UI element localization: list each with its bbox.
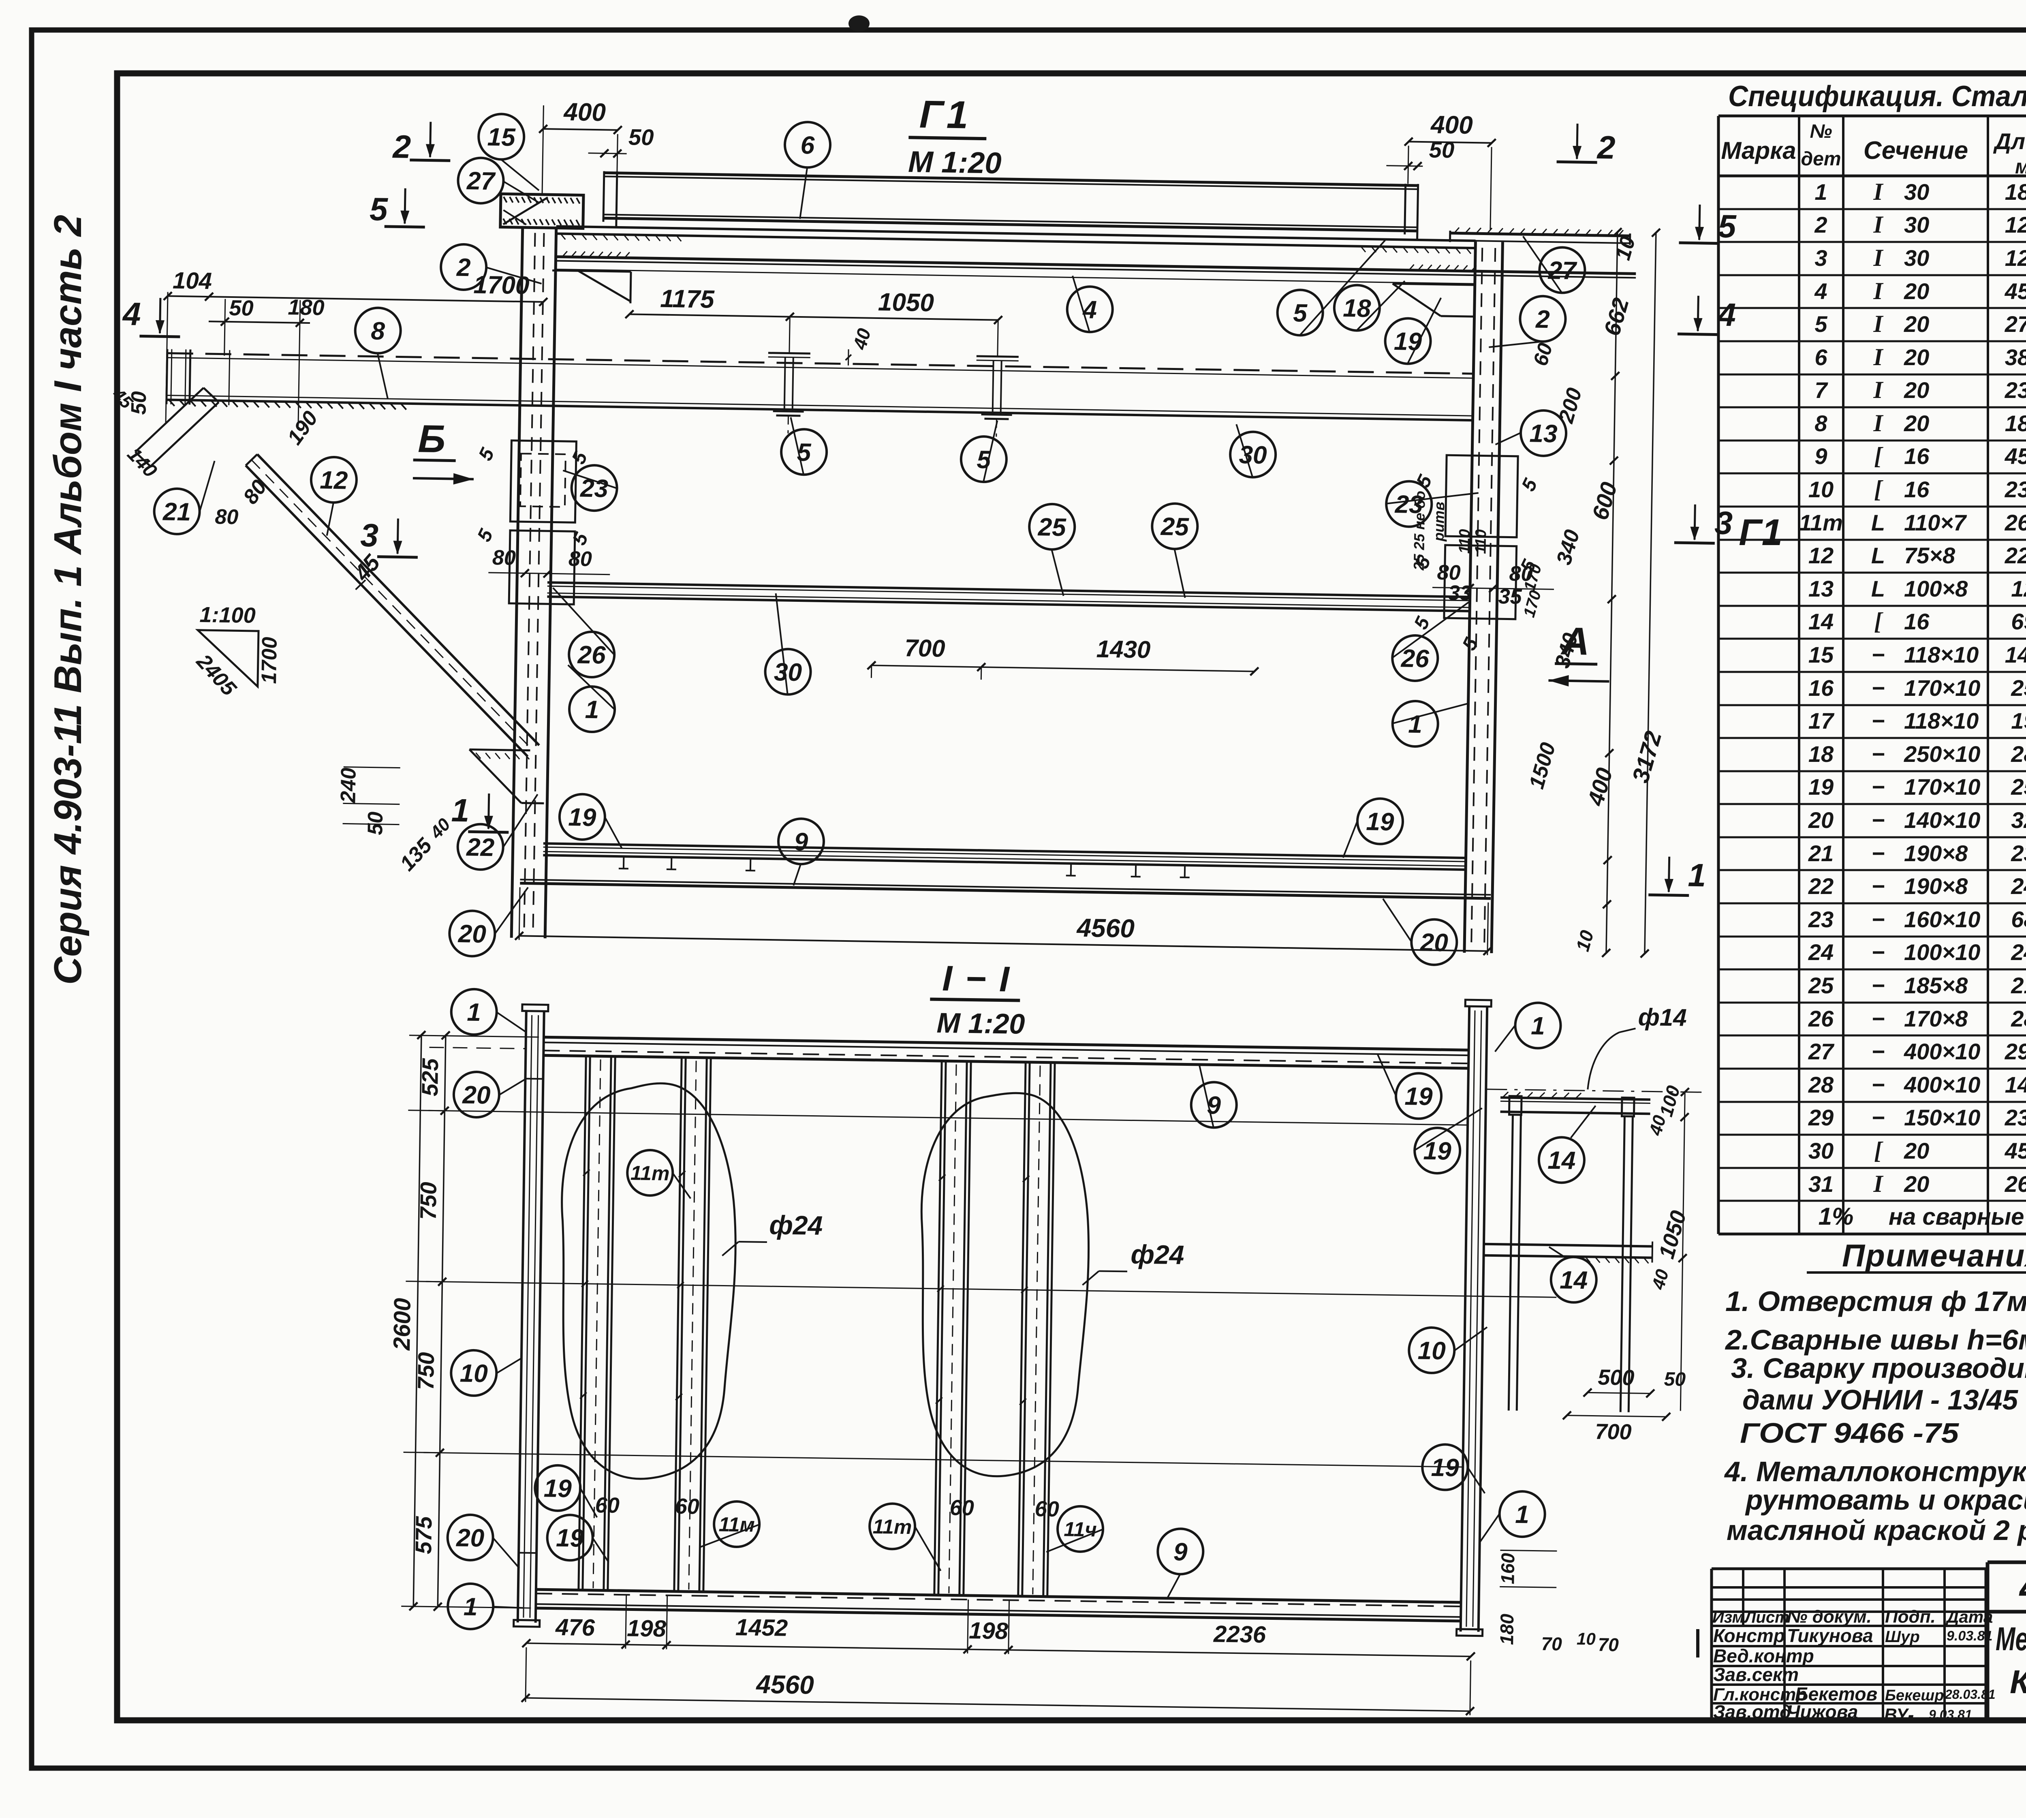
dim 240 50 135 brace bottom xyxy=(336,767,455,876)
series label (vertical) xyxy=(46,215,90,985)
stiffener pair 11t b xyxy=(933,1060,971,1595)
svg-text:−: − xyxy=(1872,939,1885,965)
svg-text:Марка: Марка xyxy=(1721,137,1796,164)
svg-text:М 1:20: М 1:20 xyxy=(908,145,1002,180)
svg-text:18: 18 xyxy=(1808,741,1834,767)
bracket under beam4 right xyxy=(1392,284,1475,317)
svg-text:30: 30 xyxy=(1904,179,1929,205)
svg-text:23: 23 xyxy=(1808,907,1834,932)
svg-text:4: 4 xyxy=(1082,296,1097,324)
svg-text:2300: 2300 xyxy=(2005,377,2026,403)
svg-text:4560: 4560 xyxy=(755,1670,814,1700)
svg-text:19: 19 xyxy=(568,803,597,832)
svg-text:ф24: ф24 xyxy=(1131,1239,1184,1270)
dim 50 right xyxy=(1386,136,1454,171)
svg-text:19: 19 xyxy=(1404,1082,1433,1111)
svg-text:на сварные швы: на сварные швы xyxy=(1889,1204,2026,1230)
svg-text:60: 60 xyxy=(949,1495,974,1520)
dim 50 180 xyxy=(207,294,325,426)
view marker B xyxy=(413,417,475,485)
svg-text:1: 1 xyxy=(451,792,470,829)
beam 4 second chord xyxy=(556,251,1636,287)
left dim chain 525 750 750 575 xyxy=(385,1031,539,1612)
svg-text:А: А xyxy=(1560,620,1590,663)
svg-text:Зав.сект: Зав.сект xyxy=(1713,1664,1799,1685)
svg-text:27: 27 xyxy=(1547,257,1577,285)
svg-text:ф24: ф24 xyxy=(769,1210,823,1240)
svg-text:50: 50 xyxy=(1664,1369,1686,1390)
svg-text:20: 20 xyxy=(1419,928,1448,957)
dim 40 mid xyxy=(845,326,875,366)
svg-text:118×10: 118×10 xyxy=(1904,708,1979,734)
svg-text:20: 20 xyxy=(457,920,486,948)
svg-text:19: 19 xyxy=(556,1524,584,1553)
svg-text:230: 230 xyxy=(2011,840,2026,866)
svg-text:1430: 1430 xyxy=(1096,635,1151,663)
top beam 9 xyxy=(543,1037,1468,1068)
svg-text:190×8: 190×8 xyxy=(1904,873,1968,899)
svg-text:5: 5 xyxy=(1814,311,1827,337)
svg-text:680: 680 xyxy=(2011,907,2026,932)
svg-text:11т: 11т xyxy=(873,1515,912,1538)
svg-text:80: 80 xyxy=(492,546,516,570)
svg-text:11т: 11т xyxy=(630,1161,670,1185)
right outrigger dims xyxy=(1562,1082,1693,1445)
section title 1-1 xyxy=(930,958,1026,1040)
svg-text:4552: 4552 xyxy=(2005,443,2026,469)
svg-text:320: 320 xyxy=(2011,807,2026,833)
svg-text:29: 29 xyxy=(1808,1105,1834,1130)
stiffener pair 11m xyxy=(673,1056,711,1592)
svg-text:4: 4 xyxy=(1717,297,1736,333)
label f24 right xyxy=(1082,1238,1184,1286)
svg-text:4560: 4560 xyxy=(1076,913,1135,943)
svg-text:1: 1 xyxy=(1531,1012,1545,1040)
svg-text:Дата: Дата xyxy=(1945,1607,1993,1626)
svg-text:50: 50 xyxy=(229,296,254,321)
svg-text:20: 20 xyxy=(1904,311,1929,337)
dim 700 1430 xyxy=(867,632,1259,684)
svg-text:2: 2 xyxy=(1814,212,1827,237)
gusset at brace bottom xyxy=(468,749,545,803)
svg-text:1175: 1175 xyxy=(660,285,715,314)
svg-text:масляной краской 2 раза: масляной краской 2 раза xyxy=(1727,1514,2026,1546)
dims 60 stiffeners xyxy=(595,1491,1059,1524)
svg-text:700: 700 xyxy=(904,634,945,662)
stiffener box left column 23 xyxy=(509,441,576,604)
svg-text:Тикунова: Тикунова xyxy=(1787,1625,1873,1646)
svg-text:30: 30 xyxy=(774,658,802,687)
svg-text:6: 6 xyxy=(800,131,815,160)
section marker 1 left xyxy=(451,792,509,832)
svg-text:Шур: Шур xyxy=(1885,1628,1920,1646)
svg-text:26: 26 xyxy=(1808,1006,1834,1031)
section marker 3 right xyxy=(1674,504,1733,543)
section marker 2 right xyxy=(1556,123,1616,165)
diagonal brace 12 xyxy=(241,454,543,757)
svg-text:9: 9 xyxy=(1173,1538,1188,1566)
cap plate 27 right xyxy=(1450,227,1630,245)
svg-text:1257: 1257 xyxy=(2005,245,2026,271)
svg-text:−: − xyxy=(1872,1039,1885,1064)
svg-text:4: 4 xyxy=(122,296,141,332)
blob outline right xyxy=(918,1092,1091,1478)
note 4 xyxy=(1724,1456,2026,1546)
svg-text:Изм: Изм xyxy=(1712,1608,1744,1626)
svg-text:750: 750 xyxy=(415,1182,441,1220)
svg-text:31: 31 xyxy=(1808,1171,1834,1197)
title block name xyxy=(1996,1612,2026,1721)
svg-text:Лист: Лист xyxy=(1744,1608,1789,1626)
svg-text:20: 20 xyxy=(1808,807,1834,833)
svg-text:25: 25 xyxy=(1160,513,1190,541)
dim 4560 top view xyxy=(515,887,1492,955)
dim 80 80 right mid xyxy=(1432,561,1554,594)
svg-text:Вед.контр: Вед.контр xyxy=(1713,1645,1814,1666)
svg-text:Длина: Длина xyxy=(1993,128,2026,154)
small 5 weld labels right column xyxy=(1409,471,1542,655)
svg-text:−: − xyxy=(1872,642,1885,667)
section marker 4 right xyxy=(1678,295,1736,335)
svg-text:I: I xyxy=(1873,244,1884,271)
notes heading xyxy=(1807,1238,2026,1273)
right chord member xyxy=(1456,1000,1491,1636)
svg-text:1%: 1% xyxy=(1819,1203,1854,1230)
svg-text:Г1: Г1 xyxy=(919,93,972,137)
svg-text:Констр: Констр xyxy=(1713,1625,1785,1646)
svg-text:I: I xyxy=(1873,211,1884,238)
svg-text:50: 50 xyxy=(363,811,387,835)
svg-text:I: I xyxy=(1873,278,1884,304)
slope triangle 1:100 xyxy=(191,603,282,702)
note 1 xyxy=(1725,1285,2026,1317)
callout circles section view xyxy=(442,988,1600,1645)
svg-text:19: 19 xyxy=(543,1474,572,1503)
svg-text:28.03.81: 28.03.81 xyxy=(1945,1687,1996,1702)
stub plate 21 diagonal xyxy=(135,387,219,467)
svg-text:6: 6 xyxy=(1814,344,1827,370)
svg-text:215: 215 xyxy=(2011,973,2026,998)
svg-text:33: 33 xyxy=(1448,581,1472,605)
svg-text:2600: 2600 xyxy=(2005,510,2026,535)
svg-text:26: 26 xyxy=(577,641,606,669)
svg-text:16: 16 xyxy=(1808,675,1834,701)
I-section symbol 5 mid-left xyxy=(767,353,1019,437)
svg-text:ГОСТ 9466 -75: ГОСТ 9466 -75 xyxy=(1740,1417,1959,1449)
svg-text:ВУ-: ВУ- xyxy=(1884,1705,1914,1725)
view marker A xyxy=(1548,619,1610,687)
svg-text:мм: мм xyxy=(2015,155,2026,178)
bottom beam 9 xyxy=(536,1589,1461,1621)
svg-text:198: 198 xyxy=(969,1617,1009,1644)
beam 6 top xyxy=(603,171,1418,240)
svg-text:8: 8 xyxy=(1814,411,1827,436)
svg-text:Г1: Г1 xyxy=(1739,512,1782,553)
svg-text:150×10: 150×10 xyxy=(1904,1105,1980,1130)
bottom dim chain 476 198 1452 198 2236 xyxy=(522,1593,1476,1661)
svg-text:170×10: 170×10 xyxy=(1904,774,1980,800)
svg-text:23: 23 xyxy=(1394,490,1423,519)
section marker 5 left xyxy=(369,188,425,228)
svg-text:60: 60 xyxy=(595,1493,620,1518)
svg-text:185×8: 185×8 xyxy=(1904,973,1968,998)
intermediate grid lines xyxy=(424,1047,1560,1468)
svg-text:500: 500 xyxy=(1598,1365,1635,1390)
svg-text:30: 30 xyxy=(1808,1138,1834,1163)
svg-text:60: 60 xyxy=(1034,1497,1059,1521)
svg-text:8: 8 xyxy=(371,317,385,345)
svg-text:20: 20 xyxy=(1904,1138,1929,1163)
svg-text:25: 25 xyxy=(1808,973,1834,998)
column P2 left xyxy=(511,227,556,938)
svg-text:2210: 2210 xyxy=(2005,543,2026,568)
svg-text:110×7: 110×7 xyxy=(1904,510,1967,535)
svg-text:118×10: 118×10 xyxy=(1904,642,1979,667)
svg-text:2600: 2600 xyxy=(389,1298,416,1351)
svg-text:25: 25 xyxy=(1037,513,1067,541)
svg-text:13: 13 xyxy=(1529,419,1558,448)
svg-text:1: 1 xyxy=(467,999,481,1027)
note 2 xyxy=(1725,1324,2026,1356)
svg-text:15: 15 xyxy=(1808,642,1834,667)
svg-text:50: 50 xyxy=(1429,137,1454,163)
svg-text:75×8: 75×8 xyxy=(1904,543,1955,568)
bearing hatch left end beam 8 xyxy=(169,400,406,410)
svg-text:1: 1 xyxy=(1408,710,1423,739)
svg-text:L: L xyxy=(1871,576,1885,601)
svg-text:198: 198 xyxy=(627,1615,667,1642)
dim 190 80 diag area xyxy=(106,384,323,530)
svg-text:476: 476 xyxy=(555,1614,595,1641)
dim 400 right xyxy=(1403,110,1496,229)
section marker 5 right xyxy=(1679,204,1737,244)
svg-text:3: 3 xyxy=(1814,245,1827,271)
svg-text:2700: 2700 xyxy=(2005,311,2026,337)
middle beam 30 row xyxy=(547,582,1469,611)
note 3 xyxy=(1731,1352,2026,1449)
svg-text:17: 17 xyxy=(1808,708,1835,734)
svg-text:−: − xyxy=(1872,741,1885,767)
svg-text:2300: 2300 xyxy=(2005,1105,2026,1130)
section marker 4 left xyxy=(122,296,181,337)
dim 400 left xyxy=(538,98,622,196)
svg-text:12: 12 xyxy=(320,466,348,494)
bottom chord line xyxy=(520,879,1491,898)
svg-text:9.03.81: 9.03.81 xyxy=(1929,1707,1972,1722)
svg-text:5: 5 xyxy=(1293,299,1308,327)
svg-text:693: 693 xyxy=(2011,609,2026,634)
svg-text:30: 30 xyxy=(1904,245,1929,271)
svg-text:20: 20 xyxy=(1904,377,1929,403)
dim 45 on brace xyxy=(348,549,385,590)
svg-text:Серия 4.903-11 Вып. 1 Альбом I: Серия 4.903-11 Вып. 1 Альбом I часть 2 xyxy=(46,215,90,985)
svg-text:2650: 2650 xyxy=(2005,1171,2026,1197)
svg-text:2: 2 xyxy=(1596,129,1616,166)
svg-text:−: − xyxy=(1872,1006,1885,1031)
svg-text:−: − xyxy=(1872,1105,1885,1130)
svg-text:3850: 3850 xyxy=(2005,344,2026,370)
svg-text:700: 700 xyxy=(1595,1420,1632,1444)
svg-text:100×10: 100×10 xyxy=(1904,939,1980,965)
svg-text:20: 20 xyxy=(1904,278,1929,304)
svg-text:30: 30 xyxy=(1904,212,1929,237)
svg-text:240: 240 xyxy=(2011,939,2026,965)
right outrigger frame xyxy=(1481,1089,1705,1413)
svg-text:2: 2 xyxy=(392,128,411,165)
svg-text:1: 1 xyxy=(585,696,599,724)
svg-text:Бекешр: Бекешр xyxy=(1885,1687,1944,1704)
svg-text:14: 14 xyxy=(1547,1146,1576,1175)
svg-text:240: 240 xyxy=(2011,873,2026,899)
svg-text:Металлоконструкция: Металлоконструкция xyxy=(1996,1621,2026,1657)
svg-text:160×10: 160×10 xyxy=(1904,907,1980,932)
svg-text:10: 10 xyxy=(1417,1337,1446,1365)
svg-text:12: 12 xyxy=(1808,543,1834,568)
svg-text:I: I xyxy=(1873,376,1884,403)
svg-text:Б: Б xyxy=(418,417,446,461)
svg-text:10: 10 xyxy=(459,1359,488,1388)
svg-text:60: 60 xyxy=(675,1494,699,1519)
svg-text:20: 20 xyxy=(1904,411,1929,436)
svg-text:250: 250 xyxy=(2011,675,2026,701)
svg-text:170×8: 170×8 xyxy=(1904,1006,1968,1031)
svg-text:120: 120 xyxy=(2011,576,2026,601)
svg-text:1: 1 xyxy=(1515,1501,1529,1529)
svg-text:20: 20 xyxy=(456,1524,485,1552)
svg-text:I: I xyxy=(1873,410,1884,436)
svg-text:11ч: 11ч xyxy=(1064,1518,1097,1541)
svg-text:180: 180 xyxy=(288,295,325,320)
svg-text:−: − xyxy=(1872,675,1885,701)
svg-text:ритв: ритв xyxy=(1430,502,1448,542)
svg-text:16: 16 xyxy=(1904,477,1930,502)
svg-text:28: 28 xyxy=(1808,1072,1834,1097)
svg-text:20: 20 xyxy=(1904,344,1929,370)
svg-text:170×10: 170×10 xyxy=(1904,675,1980,701)
svg-text:400×10: 400×10 xyxy=(1904,1039,1980,1064)
svg-text:−: − xyxy=(1872,840,1885,866)
stiffener pair 11ch xyxy=(1017,1061,1055,1597)
svg-text:195: 195 xyxy=(2011,708,2026,734)
svg-text:100×8: 100×8 xyxy=(1904,576,1968,601)
svg-text:1700: 1700 xyxy=(473,271,530,299)
svg-text:I: I xyxy=(1873,344,1884,370)
svg-text:Сечение: Сечение xyxy=(1864,137,1968,165)
svg-text:16: 16 xyxy=(1904,443,1930,469)
svg-text:1050: 1050 xyxy=(878,288,934,317)
svg-text:−: − xyxy=(1872,907,1885,932)
svg-text:104: 104 xyxy=(173,267,212,295)
svg-text:20: 20 xyxy=(1904,1171,1929,1197)
svg-text:24: 24 xyxy=(1808,939,1834,965)
overall dim 4560 bottom xyxy=(521,1647,1475,1715)
svg-text:9: 9 xyxy=(794,828,808,856)
svg-text:22: 22 xyxy=(466,833,495,862)
stiffener pair 11t a xyxy=(577,1055,615,1591)
svg-text:№: № xyxy=(1810,121,1832,142)
svg-text:250×10: 250×10 xyxy=(1904,741,1980,767)
left chord member xyxy=(514,1005,548,1627)
svg-text:3: 3 xyxy=(1714,505,1733,541)
svg-text:I: I xyxy=(1873,1170,1884,1197)
svg-text:−: − xyxy=(1872,774,1885,800)
svg-text:400: 400 xyxy=(563,98,606,127)
specification table xyxy=(1718,80,2026,1234)
stiffener box right column 23 xyxy=(1444,455,1518,619)
svg-text:10: 10 xyxy=(1577,1629,1596,1649)
column right xyxy=(1464,242,1503,953)
svg-text:2: 2 xyxy=(1535,306,1550,334)
svg-text:Спецификация. Сталь марки Вст.: Спецификация. Сталь марки Вст.3кп.2 ГОСТ… xyxy=(1728,80,2026,113)
dim 50 left xyxy=(588,124,654,158)
dim 104 xyxy=(162,267,214,424)
section marker 3 left xyxy=(360,517,419,557)
beam 8 chord pair xyxy=(167,349,1473,425)
label f24 left xyxy=(722,1209,823,1257)
svg-text:−: − xyxy=(1872,807,1885,833)
svg-text:19: 19 xyxy=(1366,808,1395,836)
svg-text:14: 14 xyxy=(1560,1266,1588,1294)
svg-text:50: 50 xyxy=(628,124,654,150)
svg-text:L: L xyxy=(1871,510,1885,535)
svg-text:750: 750 xyxy=(413,1352,439,1390)
svg-text:7: 7 xyxy=(1814,377,1828,403)
bottom right base dims xyxy=(1496,1550,1620,1655)
svg-text:Подп.: Подп. xyxy=(1885,1607,1936,1627)
svg-text:19: 19 xyxy=(1431,1454,1459,1482)
cap plate 15/27 left xyxy=(500,194,583,228)
section marker 1 right xyxy=(1648,856,1706,896)
svg-text:13: 13 xyxy=(1808,576,1834,601)
svg-text:дами УОНИИ - 13/45 - 4.0-1: дами УОНИИ - 13/45 - 4.0-1 xyxy=(1742,1384,2026,1416)
svg-text:11т: 11т xyxy=(1799,510,1843,535)
svg-text:−: − xyxy=(1872,1072,1885,1097)
svg-text:1: 1 xyxy=(1688,857,1706,894)
svg-text:9: 9 xyxy=(1814,443,1827,469)
section marker 2 left xyxy=(392,121,451,165)
svg-text:1257: 1257 xyxy=(2005,212,2026,237)
svg-text:70: 70 xyxy=(1541,1633,1562,1655)
svg-text:16: 16 xyxy=(1904,609,1930,634)
svg-text:5: 5 xyxy=(977,446,992,474)
svg-text:2.Сварные швы h=6мм: 2.Сварные швы h=6мм xyxy=(1725,1324,2026,1356)
svg-text:22: 22 xyxy=(1808,873,1834,899)
svg-text:1. Отверстия ф 17мм: 1. Отверстия ф 17мм xyxy=(1725,1285,2026,1317)
svg-text:140×10: 140×10 xyxy=(1904,807,1980,833)
f14 label xyxy=(1588,1003,1687,1091)
dim 80 80 left mid xyxy=(488,546,610,579)
svg-text:5: 5 xyxy=(1718,208,1737,245)
svg-text:70: 70 xyxy=(1598,1634,1619,1655)
svg-text:19: 19 xyxy=(1423,1137,1451,1166)
title block designation xyxy=(1988,1562,2026,1721)
svg-text:19: 19 xyxy=(1808,774,1834,800)
svg-text:80: 80 xyxy=(568,547,592,571)
callout circles top view xyxy=(147,109,1587,973)
svg-text:284: 284 xyxy=(2011,741,2026,767)
svg-text:4552: 4552 xyxy=(2005,278,2026,304)
svg-text:КБДПУ 100-76: КБДПУ 100-76 xyxy=(2010,1664,2026,1700)
svg-text:575: 575 xyxy=(410,1516,436,1554)
svg-text:14: 14 xyxy=(1808,609,1834,634)
svg-text:110: 110 xyxy=(1456,529,1473,554)
svg-text:−: − xyxy=(1872,873,1885,899)
svg-text:525: 525 xyxy=(417,1058,443,1096)
svg-text:2940: 2940 xyxy=(2005,1039,2026,1064)
svg-text:20: 20 xyxy=(462,1081,491,1109)
svg-text:рунтовать и окрасить: рунтовать и окрасить xyxy=(1745,1484,2026,1516)
svg-text:110: 110 xyxy=(1472,529,1490,554)
